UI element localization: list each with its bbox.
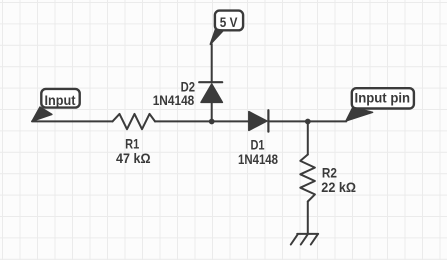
wire node to R2	[307, 121, 309, 154]
svg-text:1N4148: 1N4148	[238, 152, 278, 167]
diode D1 triangle	[249, 112, 267, 131]
svg-text:Input: Input	[45, 93, 76, 108]
callout 5 V	[210, 11, 243, 45]
diode D2 triangle	[201, 84, 222, 102]
callout Input pin	[346, 88, 414, 121]
svg-text:22 kΩ: 22 kΩ	[321, 180, 356, 195]
junction node at R2	[305, 119, 311, 125]
diode D1 cathode bar	[267, 110, 269, 131]
callout Input	[32, 89, 80, 121]
svg-text:R2: R2	[322, 166, 337, 181]
resistor R1	[113, 114, 156, 129]
wire D1 cathode to input pin callout	[268, 120, 346, 122]
svg-text:1N4148: 1N4148	[153, 93, 195, 108]
wire R2 to ground	[307, 202, 309, 234]
junction node at D2	[209, 119, 215, 125]
svg-text:47 kΩ: 47 kΩ	[116, 151, 151, 166]
svg-text:D2: D2	[181, 79, 196, 94]
wire D2 branch vertical	[211, 44, 213, 121]
diode D2 cathode bar	[199, 81, 222, 83]
svg-text:D1: D1	[250, 138, 264, 153]
wire input to R1	[32, 120, 113, 122]
svg-text:5 V: 5 V	[220, 15, 238, 30]
svg-text:Input pin: Input pin	[355, 91, 411, 106]
resistor R2	[300, 155, 315, 202]
svg-text:R1: R1	[125, 136, 139, 151]
ground	[291, 234, 318, 245]
wire R1 to D1	[155, 120, 249, 122]
